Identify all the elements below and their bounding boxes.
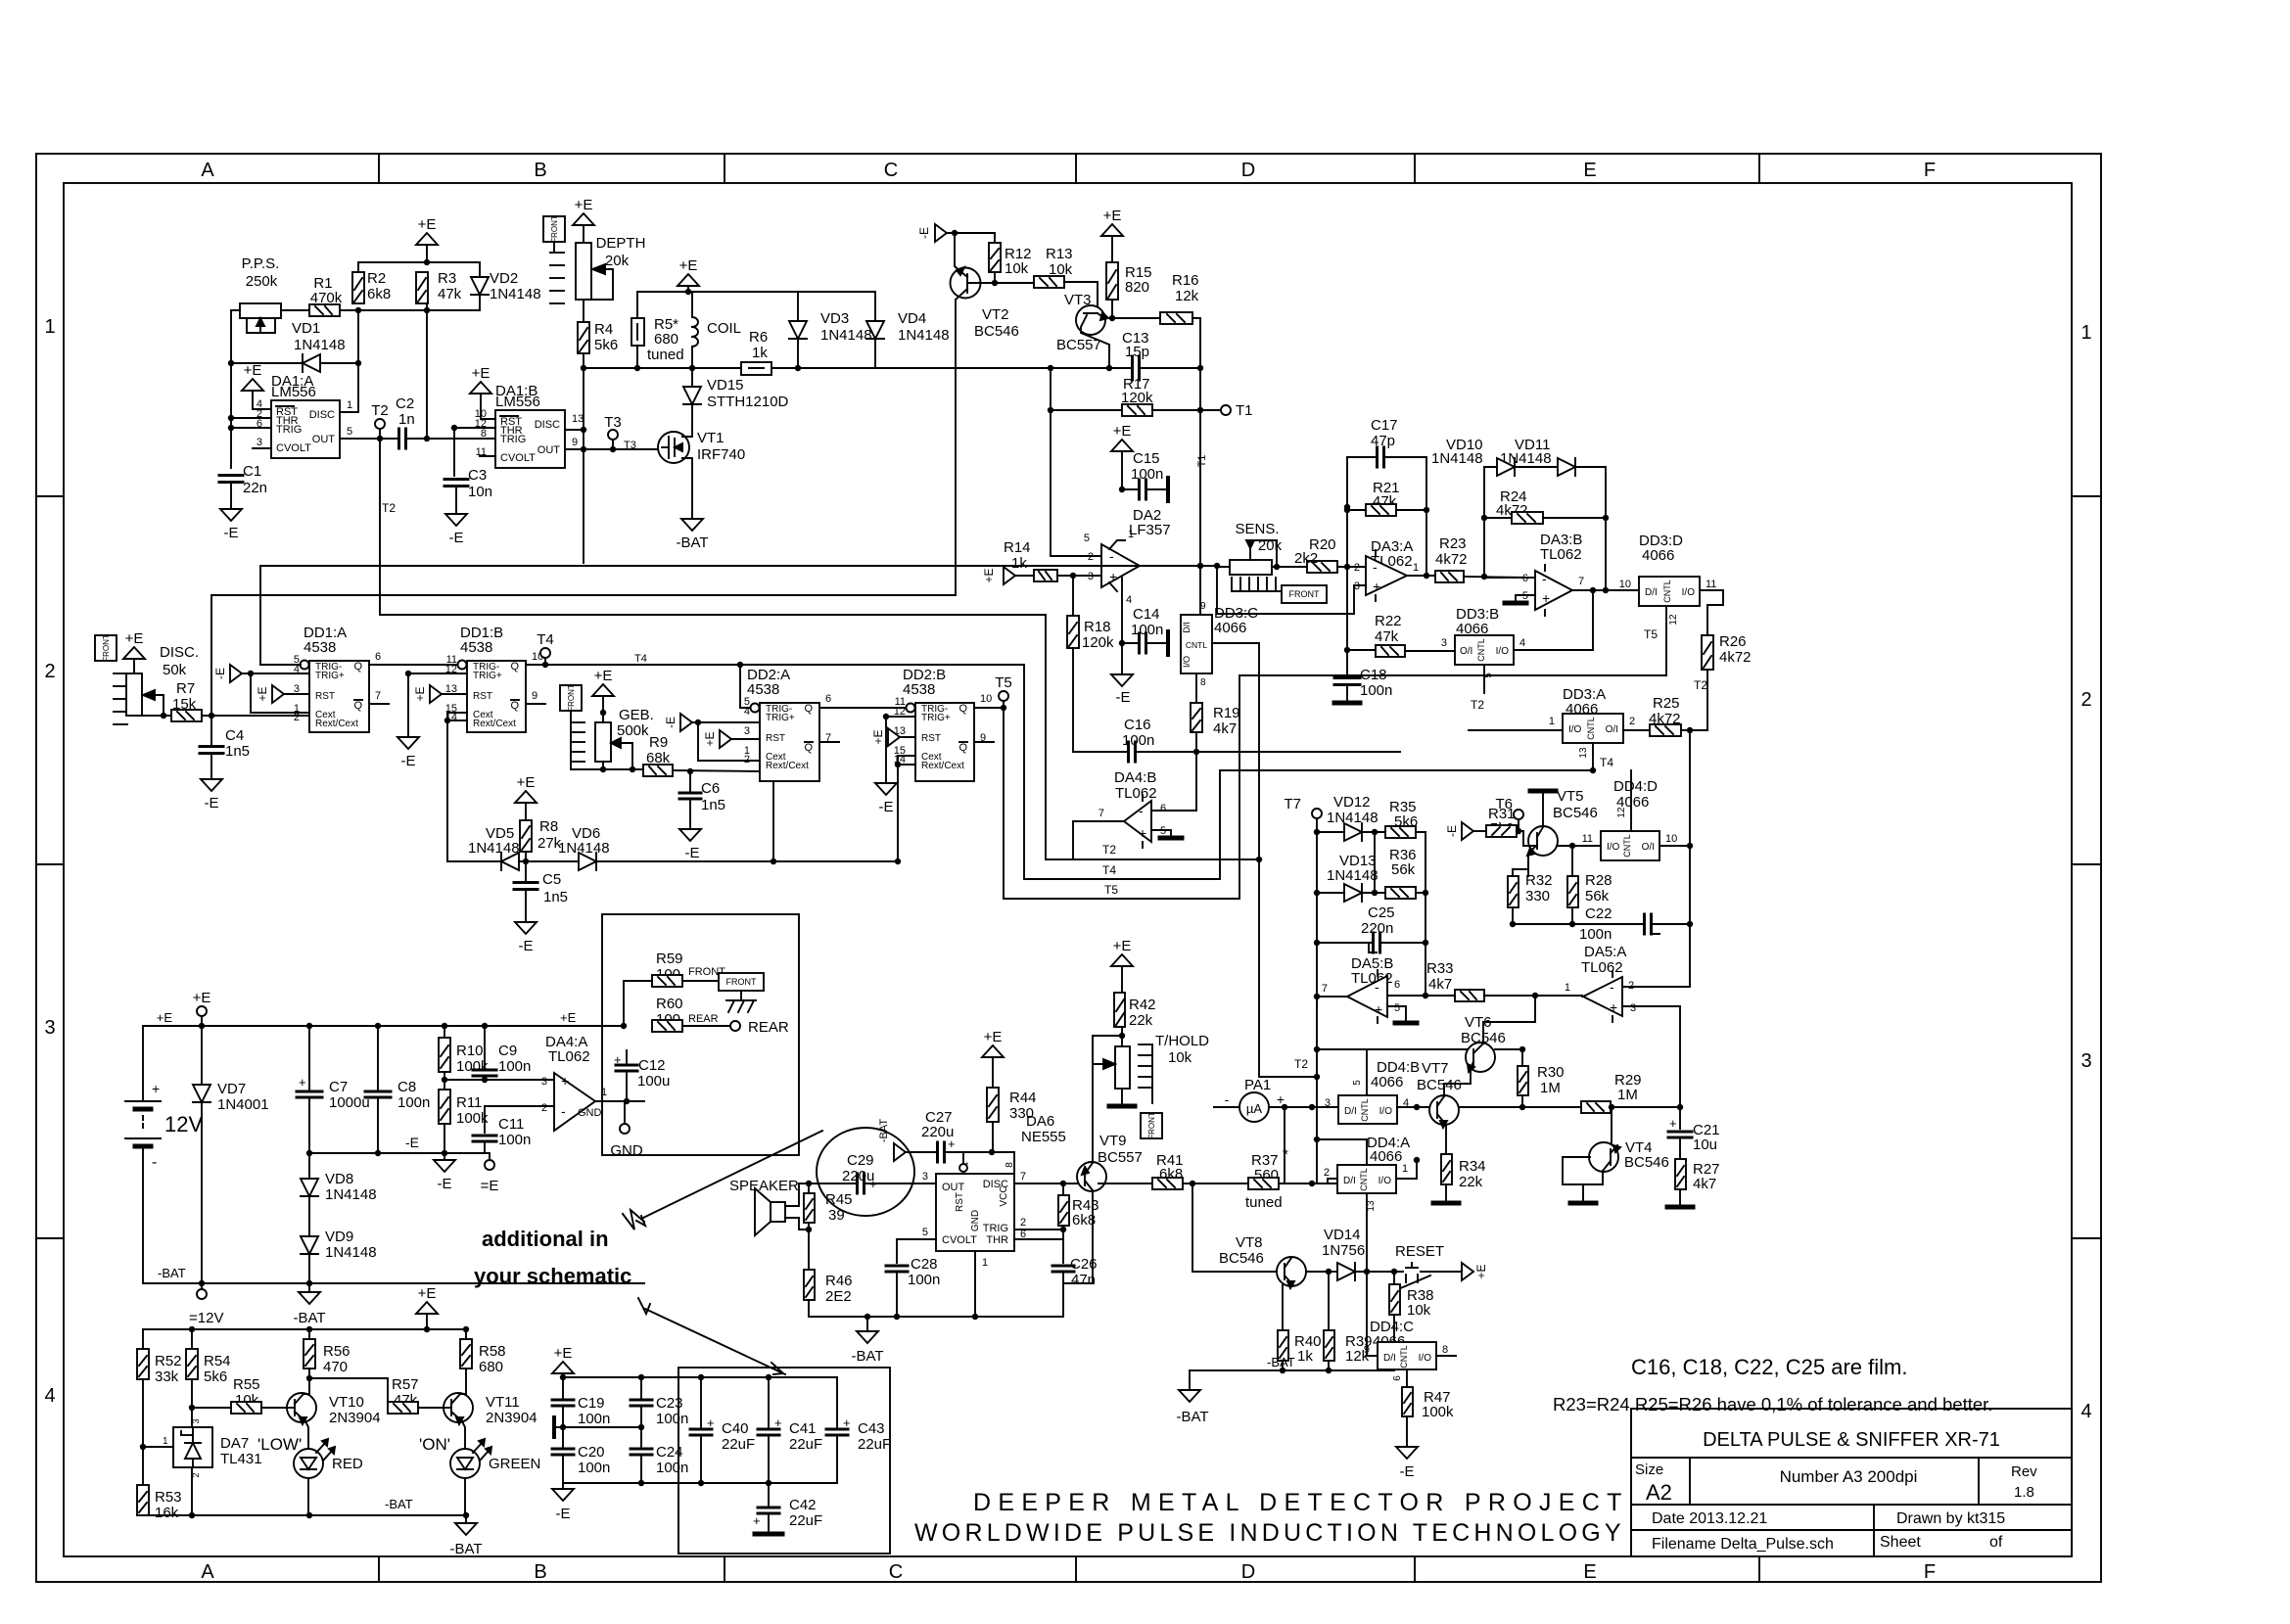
svg-text:I/O: I/O (1379, 1176, 1392, 1186)
wire THR TRIG to left rail (231, 417, 271, 419)
svg-text:100n: 100n (578, 1411, 610, 1427)
svg-text:R3: R3 (438, 270, 456, 287)
svg-text:3: 3 (191, 1418, 201, 1423)
svg-text:C40: C40 (722, 1420, 749, 1437)
svg-text:'ON': 'ON' (419, 1435, 450, 1454)
svg-text:C16: C16 (1124, 717, 1151, 733)
wire reset row (1381, 1271, 1403, 1273)
svg-text:3: 3 (744, 725, 750, 737)
control pin5 DD3:B (1483, 665, 1485, 693)
wire DA7 ref to divider (143, 1446, 173, 1448)
svg-text:+: + (561, 1073, 569, 1089)
svg-text:10: 10 (1619, 579, 1631, 590)
svg-text:-: - (1375, 979, 1379, 995)
svg-text:RST: RST (473, 691, 492, 702)
svg-text:T6: T6 (1495, 796, 1513, 812)
wire DISC pin13 to R4 vertical (565, 429, 584, 431)
svg-text:+E: +E (157, 1010, 173, 1025)
svg-text:BC557: BC557 (1056, 337, 1101, 353)
capacitor C2 1n (397, 429, 400, 448)
svg-text:-: - (1373, 559, 1378, 575)
svg-text:R57: R57 (392, 1376, 419, 1393)
svg-text:1N756: 1N756 (1322, 1242, 1365, 1259)
wire R13 to VT3 base (1064, 282, 1098, 306)
diode VD2 1N4148 (479, 262, 481, 310)
svg-text:R10: R10 (456, 1043, 484, 1059)
svg-text:47n: 47n (1071, 1272, 1096, 1288)
wire DD1:B trig+ to -E (408, 673, 467, 674)
wire DD4:D pin10 to R25 leg (1659, 845, 1690, 847)
svg-text:TL062: TL062 (1115, 785, 1157, 802)
svg-text:10n: 10n (468, 484, 492, 500)
svg-text:TRIG: TRIG (276, 424, 302, 436)
svg-text:2: 2 (744, 754, 750, 766)
svg-text:PA1: PA1 (1244, 1077, 1271, 1093)
svg-text:C16, C18, C22, C25 are film.: C16, C18, C22, C25 are film. (1631, 1355, 1907, 1379)
svg-text:BC546: BC546 (1553, 805, 1598, 821)
svg-text:+E: +E (193, 990, 211, 1006)
power +E sideways DD2:A rst (720, 730, 731, 748)
svg-text:13: 13 (1578, 747, 1589, 759)
svg-text:VD15: VD15 (707, 377, 744, 394)
svg-text:C25: C25 (1368, 905, 1395, 921)
wire R23 to DA3:B minus (1484, 577, 1535, 579)
svg-text:Q: Q (353, 661, 362, 673)
svg-text:R33: R33 (1426, 960, 1454, 977)
svg-text:9: 9 (1200, 601, 1206, 612)
control pin12 DD4:D from T4 (1630, 770, 1632, 831)
svg-text:FRONT: FRONT (102, 634, 111, 662)
svg-text:C1: C1 (243, 463, 261, 480)
svg-text:+: + (869, 1177, 877, 1191)
svg-text:+E: +E (1113, 938, 1132, 954)
svg-text:LM556: LM556 (271, 384, 316, 400)
feedback vertical right DA3:A to output (1425, 457, 1427, 576)
wire VD5 VD6 row (447, 860, 501, 862)
additional components box (602, 914, 799, 1155)
wire VD1 row (231, 362, 358, 364)
terminal GND (624, 1101, 626, 1124)
wire DD3:C pin8 to R19 (1195, 673, 1197, 703)
wire R2 bottom to DA1:A DISC pin1 (340, 310, 358, 412)
terminal =12V (201, 1283, 203, 1289)
svg-text:SPEAKER: SPEAKER (729, 1178, 799, 1194)
wire C28 cvolt (897, 1238, 936, 1240)
svg-text:-E: -E (1116, 689, 1131, 706)
svg-text:D/I: D/I (1343, 1176, 1356, 1186)
svg-text:C2: C2 (396, 395, 414, 412)
wire DA3:B output to DD3:D (1572, 589, 1639, 591)
svg-text:R53: R53 (155, 1489, 182, 1506)
svg-text:1k: 1k (752, 345, 768, 361)
svg-text:-E: -E (917, 227, 931, 239)
svg-text:R25: R25 (1653, 695, 1680, 712)
power +E above DISC pot (123, 647, 145, 659)
stub pin9 DD2:B (974, 741, 994, 743)
ground -E below DA2 (1121, 643, 1123, 674)
wire R3 bottom to C2 junction (427, 309, 480, 311)
svg-text:2: 2 (1020, 1217, 1026, 1229)
svg-text:1n: 1n (398, 411, 415, 428)
wire meter row (1214, 1106, 1240, 1108)
ground -BAT below rail right (465, 1515, 467, 1523)
svg-text:Sheet: Sheet (1880, 1534, 1921, 1551)
svg-text:T3: T3 (624, 440, 636, 451)
power +E sideways DD2:B rst (888, 728, 900, 746)
svg-text:C19: C19 (578, 1395, 605, 1412)
svg-text:VD3: VD3 (820, 310, 849, 327)
svg-text:100n: 100n (656, 1411, 688, 1427)
svg-text:tuned: tuned (1245, 1194, 1283, 1211)
svg-text:6: 6 (1522, 573, 1528, 584)
svg-text:4k7: 4k7 (1213, 720, 1237, 737)
control pin13 DD3:A to T4 bus (1592, 743, 1594, 770)
svg-text:12k: 12k (1175, 288, 1199, 304)
svg-text:LM556: LM556 (495, 394, 540, 410)
svg-text:C17: C17 (1371, 417, 1398, 434)
capacitor C13 15p (1051, 367, 1133, 369)
ground -E below C3 (455, 487, 457, 514)
svg-text:-E: -E (519, 938, 534, 954)
diode VD10 1N4148 (1497, 458, 1515, 476)
svg-text:C6: C6 (701, 780, 720, 797)
svg-text:WORLDWIDE PULSE INDUCTION TECH: WORLDWIDE PULSE INDUCTION TECHNOLOGY (914, 1519, 1625, 1547)
border frame outer (36, 154, 2101, 1582)
svg-text:Rev: Rev (2011, 1463, 2037, 1480)
ticks DISC pot (114, 673, 127, 674)
svg-text:C41: C41 (789, 1420, 817, 1437)
svg-text:Q: Q (353, 700, 362, 712)
svg-text:+: + (753, 1513, 761, 1528)
svg-text:1: 1 (1413, 562, 1419, 574)
svg-text:+E: +E (244, 362, 262, 379)
svg-text:1N4148: 1N4148 (558, 840, 610, 857)
terminal +E supply (197, 1006, 207, 1016)
svg-text:T1: T1 (1236, 402, 1253, 419)
resistor R20 2k2 (1307, 561, 1337, 573)
svg-text:B: B (534, 160, 546, 181)
wire DA5:B out leg down to R37 node (1316, 997, 1318, 1183)
svg-text:1N4148: 1N4148 (1327, 810, 1379, 826)
svg-text:6k8: 6k8 (367, 286, 391, 302)
svg-text:C22: C22 (1585, 905, 1612, 922)
svg-text:RED: RED (332, 1456, 363, 1472)
stub pin9 DD1:B (526, 703, 545, 705)
wire R16 to T1 vertical (1192, 318, 1200, 566)
wire R15 bottom to R16 (1111, 300, 1113, 318)
wire DD1:A Q to DD1:B trig (369, 664, 458, 666)
wire DA4:A output into box (595, 1100, 644, 1102)
wire DA7 cathode anode (191, 1467, 193, 1515)
svg-text:+: + (1139, 825, 1146, 841)
svg-text:5: 5 (922, 1227, 928, 1238)
svg-text:-: - (152, 1154, 157, 1171)
svg-text:22uF: 22uF (789, 1512, 822, 1529)
svg-text:'LOW': 'LOW' (257, 1435, 302, 1454)
svg-text:100n: 100n (498, 1058, 531, 1075)
svg-text:4k72: 4k72 (1719, 649, 1752, 666)
svg-text:R28: R28 (1585, 872, 1612, 889)
svg-text:E: E (1583, 1561, 1596, 1583)
svg-text:+E: +E (871, 729, 885, 744)
zone row dividers (36, 495, 64, 497)
svg-text:R9: R9 (649, 734, 668, 751)
svg-text:OUT: OUT (312, 434, 336, 445)
svg-text:C: C (889, 1561, 903, 1583)
FRONT tag T/HOLD (1141, 1113, 1162, 1138)
ground tick DA5:B plus (1387, 1006, 1406, 1020)
svg-text:R56: R56 (323, 1343, 351, 1360)
vertical from C13 to DA2 pin2 (1051, 368, 1101, 556)
svg-text:I/O: I/O (1607, 842, 1620, 853)
inverting bubble DD2:B pin11 (907, 704, 915, 713)
resistor R4 5k6 (578, 322, 589, 353)
wire NE555 trig thr to C26 (1014, 1229, 1063, 1230)
svg-text:+: + (1669, 1116, 1677, 1131)
svg-text:6: 6 (375, 651, 381, 663)
svg-text:1N4148: 1N4148 (820, 327, 872, 344)
svg-text:O/I: O/I (1606, 724, 1618, 735)
wire DEPTH to R4 (583, 300, 584, 322)
svg-text:4k7: 4k7 (1693, 1176, 1716, 1192)
svg-text:T5: T5 (1644, 627, 1658, 641)
svg-text:-BAT: -BAT (851, 1348, 883, 1365)
svg-text:9: 9 (532, 690, 537, 702)
svg-text:6: 6 (1392, 1375, 1403, 1381)
svg-text:4: 4 (2080, 1401, 2091, 1422)
svg-text:CVOLT: CVOLT (942, 1234, 977, 1246)
svg-text:33k: 33k (155, 1369, 179, 1385)
wire R56 bottom junction to R57 (309, 1378, 388, 1408)
ground bar below T/HOLD (1121, 1089, 1123, 1104)
wire DD2:A cext riser (772, 781, 774, 861)
svg-text:Filename Delta_Pulse.sch: Filename Delta_Pulse.sch (1652, 1536, 1834, 1553)
svg-text:R52: R52 (155, 1353, 182, 1369)
svg-text:13: 13 (1366, 1200, 1377, 1212)
wire DA5:B output (1317, 996, 1347, 998)
bus VT2 collector to R7 node (211, 594, 956, 596)
svg-text:-: - (1225, 1091, 1230, 1107)
inductor COIL (691, 292, 693, 317)
terminal T5 (974, 707, 1004, 709)
power +E stem indicator rail (416, 1302, 438, 1314)
svg-text:R60: R60 (656, 996, 683, 1012)
resistor R34 22k (1441, 1154, 1452, 1184)
svg-text:VT1: VT1 (697, 430, 724, 446)
svg-text:12: 12 (1616, 807, 1627, 818)
svg-text:1N4148: 1N4148 (490, 286, 541, 302)
svg-text:2: 2 (541, 1102, 547, 1114)
svg-text:D/I: D/I (1344, 1106, 1357, 1117)
svg-text:FRONT: FRONT (567, 684, 576, 712)
svg-text:SENS.: SENS. (1235, 521, 1279, 537)
stub CVOLT pin3 (253, 447, 271, 449)
power -E sideways DD2:A trig+ (680, 714, 692, 731)
resistor R18 120k (1072, 576, 1074, 616)
svg-text:D/I: D/I (1383, 1353, 1396, 1364)
svg-text:2: 2 (1354, 562, 1360, 574)
bus T5 (1004, 606, 1666, 899)
main discharge bus y376 (584, 367, 741, 369)
svg-text:1M: 1M (1617, 1087, 1638, 1103)
svg-text:C14: C14 (1133, 606, 1160, 623)
svg-text:CNTL: CNTL (1186, 640, 1207, 650)
svg-text:C28: C28 (911, 1256, 938, 1273)
border frame inner (64, 183, 2072, 1556)
wire R7 to DD1:A Rext and C4 (202, 715, 309, 717)
svg-text:1N4148: 1N4148 (468, 840, 520, 857)
vertical VD11 right leg to DA3:B out (1605, 467, 1607, 590)
wire DD2:B cext riser (898, 756, 915, 861)
stub Qbar pin7 DD1:A (369, 703, 389, 705)
svg-text:TRIG: TRIG (983, 1223, 1008, 1234)
svg-text:1n5: 1n5 (701, 797, 725, 813)
capacitor C1 22n (219, 474, 243, 477)
resistor R13 10k (1034, 276, 1064, 288)
svg-text:VT7: VT7 (1422, 1060, 1449, 1077)
svg-text:C29: C29 (847, 1152, 874, 1169)
power +E above R42 (1111, 954, 1133, 966)
svg-text:C23: C23 (656, 1395, 683, 1412)
svg-text:Q: Q (510, 700, 519, 712)
svg-text:4: 4 (44, 1385, 55, 1407)
svg-text:+: + (948, 1137, 956, 1151)
svg-text:3: 3 (1088, 571, 1094, 582)
svg-text:10k: 10k (1049, 261, 1073, 278)
svg-text:+: + (1542, 590, 1550, 606)
svg-text:7: 7 (1578, 576, 1584, 587)
svg-text:47k: 47k (438, 286, 462, 302)
svg-text:R6: R6 (749, 329, 768, 346)
svg-text:TRIG+: TRIG+ (315, 671, 345, 681)
wire DA5:A output from R33 (1582, 996, 1583, 997)
svg-text:IRF740: IRF740 (697, 446, 745, 463)
svg-text:VT5: VT5 (1557, 788, 1584, 805)
svg-text:4066: 4066 (1370, 1148, 1402, 1165)
svg-text:-: - (1109, 548, 1114, 564)
svg-text:+E: +E (560, 1010, 577, 1025)
svg-text:RST: RST (766, 733, 785, 744)
terminal T3 (608, 430, 618, 440)
svg-text:R22: R22 (1375, 613, 1402, 629)
svg-text:4066: 4066 (1214, 620, 1246, 636)
wire R20 to DA3:A minus input (1337, 566, 1366, 568)
svg-text:TL062: TL062 (548, 1048, 590, 1065)
svg-text:1n5: 1n5 (225, 743, 250, 760)
svg-text:RST: RST (921, 733, 941, 744)
svg-text:DA5:A: DA5:A (1584, 944, 1626, 960)
svg-text:2: 2 (1628, 980, 1634, 992)
svg-text:I/O: I/O (1496, 646, 1510, 657)
svg-text:9: 9 (1364, 1344, 1370, 1356)
svg-text:R30: R30 (1537, 1064, 1565, 1081)
svg-text:22k: 22k (1459, 1174, 1483, 1190)
svg-text:VD9: VD9 (325, 1229, 353, 1245)
svg-text:I/O: I/O (1682, 587, 1696, 598)
svg-text:DISC: DISC (309, 409, 335, 421)
svg-text:5k6: 5k6 (594, 337, 618, 353)
svg-text:-: - (1542, 571, 1547, 586)
svg-text:+E: +E (679, 257, 698, 274)
svg-text:BC546: BC546 (1417, 1077, 1462, 1093)
net label T2 vertical wire (379, 439, 381, 615)
power +E for DA1:B (470, 382, 491, 394)
svg-text:T3: T3 (604, 414, 622, 431)
svg-text:56k: 56k (1391, 861, 1416, 878)
svg-text:DA4:B: DA4:B (1114, 769, 1156, 786)
svg-text:your schematic: your schematic (474, 1264, 631, 1288)
resistor R14 1k (1015, 575, 1034, 577)
svg-text:-E: -E (401, 753, 416, 769)
svg-text:CNTL: CNTL (1360, 1098, 1370, 1122)
svg-text:VD4: VD4 (898, 310, 926, 327)
ground -E below DD1:B trig (397, 737, 419, 749)
diode VD1 1N4148 (303, 354, 320, 372)
svg-text:+E: +E (984, 1029, 1003, 1045)
svg-text:50k: 50k (163, 662, 187, 678)
svg-text:+E: +E (1474, 1264, 1488, 1278)
svg-text:+E: +E (1103, 208, 1122, 224)
svg-text:3: 3 (1325, 1097, 1331, 1109)
svg-text:GND: GND (578, 1107, 602, 1119)
svg-text:-E: -E (213, 668, 227, 679)
power -E sideways for VT2 emitter (935, 224, 947, 242)
svg-text:COIL: COIL (707, 320, 741, 337)
svg-text:1N4148: 1N4148 (325, 1244, 377, 1261)
svg-text:VD14: VD14 (1324, 1227, 1361, 1243)
svg-text:2N3904: 2N3904 (486, 1410, 537, 1426)
power +E sideways reset (1462, 1263, 1473, 1280)
svg-text:R32: R32 (1525, 872, 1553, 889)
svg-text:R23=R24 R25=R26 have 0,1% of t: R23=R24 R25=R26 have 0,1% of tolerance a… (1553, 1394, 1992, 1415)
svg-text:330: 330 (1009, 1105, 1034, 1122)
svg-text:2: 2 (44, 661, 55, 682)
wire PA1 plus to R37 (1284, 1107, 1285, 1183)
chassis symbol below FRONT tag (740, 991, 742, 1000)
ground tick DA4:B plus (1151, 830, 1171, 836)
svg-text:R14: R14 (1004, 539, 1031, 556)
svg-text:-E: -E (1400, 1463, 1415, 1480)
svg-text:100n: 100n (656, 1460, 688, 1476)
svg-text:100k: 100k (1422, 1404, 1454, 1420)
svg-text:2k2: 2k2 (1294, 550, 1318, 567)
svg-text:4538: 4538 (460, 639, 492, 656)
svg-text:-BAT: -BAT (449, 1541, 482, 1557)
svg-text:R44: R44 (1009, 1090, 1037, 1106)
svg-text:T5: T5 (1104, 883, 1118, 897)
svg-text:R7: R7 (176, 680, 195, 697)
power +E above R44 (982, 1045, 1004, 1057)
svg-text:-BAT: -BAT (1267, 1355, 1295, 1369)
wire DA3:A plus input from DA2 out (1217, 567, 1366, 614)
wire DD1:B Cext Rext to R8 VD5 node (447, 713, 467, 861)
wire VT10 collector to R56 (304, 1369, 309, 1394)
svg-text:5: 5 (347, 426, 352, 438)
svg-text:250k: 250k (246, 273, 278, 290)
power +E sideways for R14 (1004, 567, 1015, 584)
ground -E below C5 (515, 922, 537, 934)
terminal T4 (526, 664, 1024, 666)
svg-text:5k6: 5k6 (204, 1369, 227, 1385)
svg-text:3: 3 (1441, 637, 1447, 649)
wire DD4:B cntl from leg (1317, 1049, 1367, 1095)
svg-text:22n: 22n (243, 480, 267, 496)
svg-text:+E: +E (472, 365, 491, 382)
svg-text:16k: 16k (155, 1505, 179, 1521)
wire DD4:B pin4 to VT7 base (1397, 1106, 1429, 1108)
terminal T7 (1312, 809, 1322, 818)
ground -E below R11 (444, 1153, 445, 1158)
